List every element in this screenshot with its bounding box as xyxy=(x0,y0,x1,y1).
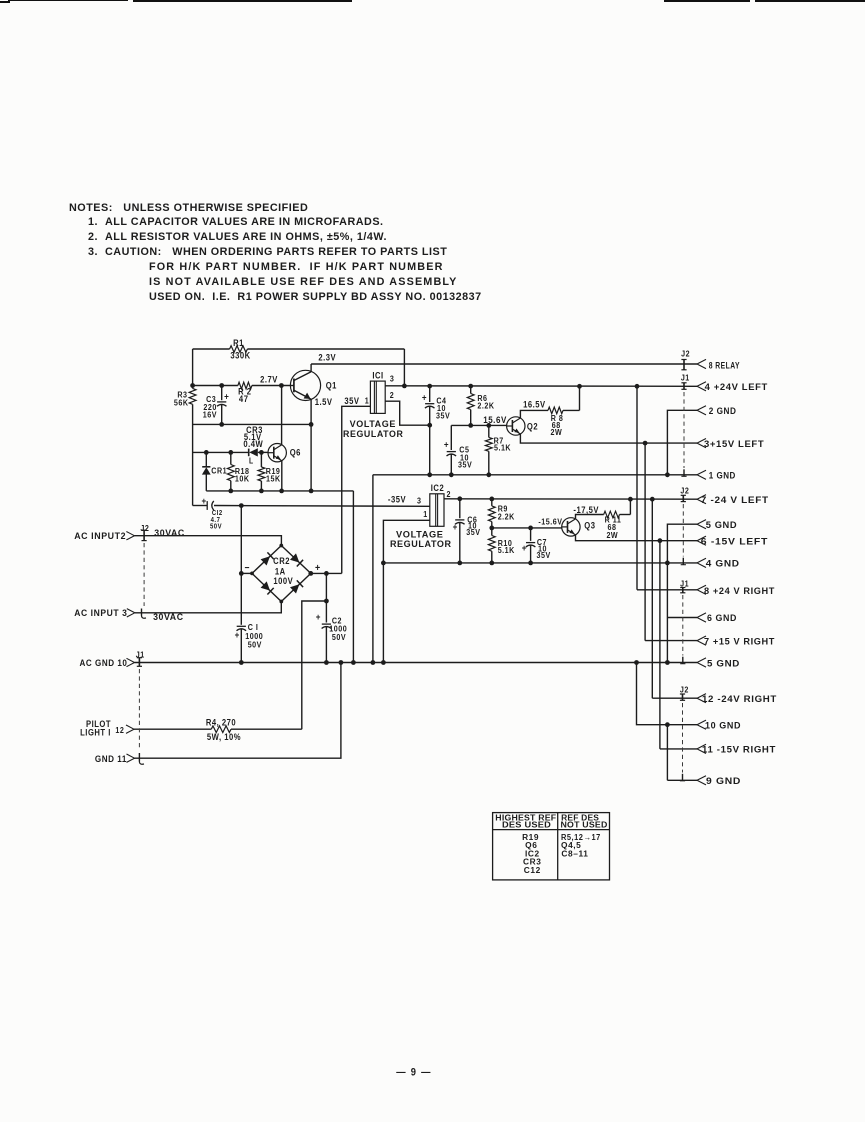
wire xyxy=(135,663,341,759)
svg-text:GND 11: GND 11 xyxy=(95,754,127,765)
resistor R7 xyxy=(485,425,511,477)
pin 8 RELAY xyxy=(697,359,740,370)
svg-text:+: + xyxy=(522,543,527,554)
svg-text:2 GND: 2 GND xyxy=(709,405,737,416)
svg-text:+: + xyxy=(202,495,207,506)
wire xyxy=(667,617,697,619)
resistor R11 xyxy=(604,511,622,540)
svg-text:2.2K: 2.2K xyxy=(498,512,515,522)
svg-text:REGULATOR: REGULATOR xyxy=(390,538,452,549)
svg-text:2.3V: 2.3V xyxy=(318,352,336,363)
svg-text:Q1: Q1 xyxy=(326,380,337,391)
svg-text:1: 1 xyxy=(423,509,428,519)
op-amp IC1 xyxy=(343,370,403,439)
svg-text:8 +24 V RIGHT: 8 +24 V RIGHT xyxy=(704,585,775,596)
wire xyxy=(385,384,697,389)
svg-text:56K: 56K xyxy=(174,398,189,408)
pin 6 -15V LEFT xyxy=(697,536,768,547)
svg-text:330K: 330K xyxy=(230,350,250,361)
connector J2 xyxy=(680,685,689,781)
wire xyxy=(135,602,281,613)
svg-text:11 -15V RIGHT: 11 -15V RIGHT xyxy=(702,744,776,755)
wire xyxy=(281,461,283,491)
svg-text:2.2K: 2.2K xyxy=(477,401,494,411)
pin AC INPUT 3 xyxy=(74,607,183,622)
wire xyxy=(351,491,356,665)
pin 5 GND xyxy=(697,519,737,530)
svg-text:AC INPUT2: AC INPUT2 xyxy=(74,530,126,541)
wire xyxy=(667,410,697,475)
op-amp IC2 xyxy=(390,482,452,549)
capacitor C3 xyxy=(203,386,230,425)
diode CR1 xyxy=(202,452,227,491)
capacitor C2 xyxy=(316,573,348,664)
svg-text:30VAC: 30VAC xyxy=(153,611,184,622)
svg-text:8 RELAY: 8 RELAY xyxy=(709,360,740,371)
wire xyxy=(193,348,405,350)
svg-text:5 GND: 5 GND xyxy=(707,658,740,669)
svg-text:AC GND 10: AC GND 10 xyxy=(80,657,128,668)
wire xyxy=(667,524,697,662)
pin PILOT LIGHT 12 xyxy=(80,718,134,738)
resistor R10 xyxy=(488,528,514,565)
svg-text:3: 3 xyxy=(390,374,395,384)
svg-text:+: + xyxy=(224,391,229,402)
svg-text:LIGHT I: LIGHT I xyxy=(80,727,111,738)
connector J1 xyxy=(680,579,689,664)
capacitor C5 xyxy=(444,425,473,477)
wire xyxy=(667,725,697,781)
svg-text:1: 1 xyxy=(365,396,370,406)
pin 10 GND xyxy=(697,720,741,731)
svg-text:2: 2 xyxy=(447,490,452,500)
pin AC GND 10 xyxy=(80,657,135,668)
wire xyxy=(659,541,661,749)
pin 3 +15V LEFT xyxy=(697,439,764,450)
svg-text:4 +24V LEFT: 4 +24V LEFT xyxy=(705,382,768,393)
svg-text:50V: 50V xyxy=(248,640,262,650)
resistor R3 xyxy=(174,388,196,407)
resistor R1 xyxy=(230,337,251,360)
svg-text:5.1K: 5.1K xyxy=(494,443,511,453)
svg-text:12: 12 xyxy=(115,726,124,736)
wire xyxy=(342,406,371,573)
svg-text:9 GND: 9 GND xyxy=(706,775,741,786)
wire xyxy=(193,422,314,427)
wire xyxy=(135,536,282,546)
scan mark top-left xyxy=(0,1,10,3)
svg-text:C8–11: C8–11 xyxy=(561,848,588,858)
rectifier CR2 xyxy=(244,544,320,604)
node 16.5V xyxy=(523,386,579,410)
connector J2 xyxy=(681,349,690,370)
svg-text:50V: 50V xyxy=(332,633,346,643)
svg-text:CR1: CR1 xyxy=(211,466,227,476)
svg-text:6 -15V LEFT: 6 -15V LEFT xyxy=(701,536,768,547)
pin 6 GND xyxy=(697,613,737,624)
resistor R18 xyxy=(227,452,249,491)
capacitor C7 xyxy=(522,528,551,565)
wire xyxy=(576,535,698,544)
zener CR3 xyxy=(243,424,263,465)
pin 12 -24V RIGHT xyxy=(697,693,777,704)
capacitor C12 xyxy=(193,495,223,530)
wire xyxy=(637,663,698,728)
pin 4 GND xyxy=(697,558,740,569)
transistor Q2 xyxy=(507,417,539,435)
svg-text:— 9 —: — 9 — xyxy=(396,1067,431,1079)
wire xyxy=(644,443,646,640)
svg-text:AC INPUT 3: AC INPUT 3 xyxy=(74,607,127,618)
connector J1 input xyxy=(136,650,145,764)
resistor R6 xyxy=(467,386,494,428)
pin GND 11 xyxy=(95,754,135,765)
wire xyxy=(371,475,376,665)
svg-text:Q2: Q2 xyxy=(527,421,538,432)
transistor Q3 xyxy=(562,518,596,536)
svg-text:35V: 35V xyxy=(344,395,359,406)
resistor R19 xyxy=(258,452,281,491)
svg-text:6 GND: 6 GND xyxy=(707,613,737,624)
wire xyxy=(403,349,405,386)
page number xyxy=(396,1067,431,1079)
svg-text:16.5V: 16.5V xyxy=(523,399,546,410)
svg-text:100V: 100V xyxy=(273,575,293,586)
resistor R8 xyxy=(548,407,563,437)
svg-text:-15.6V: -15.6V xyxy=(538,517,562,527)
svg-text:R1: R1 xyxy=(233,337,244,348)
svg-text:16V: 16V xyxy=(203,410,217,420)
wire xyxy=(660,748,697,750)
capacitor C1 xyxy=(235,506,264,665)
svg-text:+: + xyxy=(235,629,240,640)
svg-text:7 +15 V RIGHT: 7 +15 V RIGHT xyxy=(704,636,775,647)
connector J2 xyxy=(680,486,689,565)
svg-text:CR2: CR2 xyxy=(273,555,290,566)
node 2.7V xyxy=(190,374,290,388)
svg-text:30VAC: 30VAC xyxy=(154,527,185,538)
wire xyxy=(520,410,548,418)
svg-text:2: 2 xyxy=(390,390,395,400)
wire xyxy=(193,450,268,455)
pin 4 +24V LEFT xyxy=(697,382,768,393)
wire xyxy=(373,472,697,477)
svg-text:50V: 50V xyxy=(210,523,222,531)
svg-text:+: + xyxy=(453,522,458,533)
wire xyxy=(652,697,697,699)
svg-text:J2: J2 xyxy=(140,524,149,534)
pin 1 GND xyxy=(697,470,736,481)
wire xyxy=(636,386,638,590)
wire xyxy=(192,349,194,506)
wire xyxy=(206,489,353,494)
svg-text:NOT USED: NOT USED xyxy=(560,819,607,829)
connector J1 xyxy=(681,373,690,476)
svg-text:J2: J2 xyxy=(680,685,689,695)
wire xyxy=(385,401,430,425)
svg-text:5 GND: 5 GND xyxy=(706,519,738,530)
svg-text:10K: 10K xyxy=(235,474,250,484)
svg-text:5W, 10%: 5W, 10% xyxy=(207,732,241,743)
svg-text:4 GND: 4 GND xyxy=(706,558,740,569)
wire xyxy=(520,434,697,446)
svg-text:+: + xyxy=(315,562,321,574)
wire xyxy=(383,561,697,566)
svg-text:12 -24V RIGHT: 12 -24V RIGHT xyxy=(702,693,777,704)
svg-text:-35V: -35V xyxy=(388,494,406,505)
node 2.3V xyxy=(311,352,697,364)
node 15.6V xyxy=(451,415,507,428)
pin AC INPUT 2 xyxy=(74,527,185,541)
pin 11 -15V RIGHT xyxy=(697,744,776,755)
svg-text:−: − xyxy=(244,562,249,573)
net -35V xyxy=(214,494,430,508)
svg-text:7 -24 V LEFT: 7 -24 V LEFT xyxy=(701,495,769,506)
svg-text:Q3: Q3 xyxy=(584,520,595,531)
svg-text:0.4W: 0.4W xyxy=(243,438,263,449)
svg-text:+: + xyxy=(444,439,449,450)
wire xyxy=(310,364,312,372)
resistor R4 xyxy=(134,717,302,742)
pin 9 GND xyxy=(697,775,741,786)
svg-text:2.7V: 2.7V xyxy=(260,374,278,385)
wire xyxy=(302,599,329,730)
wire xyxy=(310,399,312,491)
wire xyxy=(381,520,430,665)
table xyxy=(493,812,610,880)
svg-text:C12: C12 xyxy=(524,865,541,875)
svg-text:L: L xyxy=(249,456,254,466)
pin 7 +15V RIGHT xyxy=(697,636,775,647)
svg-text:10 GND: 10 GND xyxy=(705,720,741,731)
transistor Q1 xyxy=(290,370,337,407)
svg-text:35V: 35V xyxy=(458,460,472,470)
pin 8 +24V RIGHT xyxy=(697,585,775,596)
svg-text:3+15V LEFT: 3+15V LEFT xyxy=(704,439,764,450)
svg-text:3: 3 xyxy=(417,496,422,506)
wire xyxy=(576,515,604,520)
pin 7 -24V LEFT xyxy=(697,495,769,506)
svg-text:+: + xyxy=(316,612,321,623)
svg-text:35V: 35V xyxy=(537,550,551,560)
wire xyxy=(645,640,697,642)
pin 2 GND xyxy=(697,405,736,416)
svg-text:-17,5V: -17,5V xyxy=(573,505,599,516)
svg-text:47: 47 xyxy=(239,393,249,404)
capacitor C6 xyxy=(453,499,481,566)
svg-text:5.1K: 5.1K xyxy=(498,545,515,555)
wire xyxy=(239,571,252,576)
connector J2 input xyxy=(140,524,149,619)
svg-text:1.5V: 1.5V xyxy=(315,397,333,408)
svg-text:15.6V: 15.6V xyxy=(483,415,507,426)
svg-text:35V: 35V xyxy=(466,528,480,538)
wire xyxy=(444,496,697,501)
pin 5 GND xyxy=(697,658,740,669)
svg-text:35V: 35V xyxy=(436,411,450,421)
scan mark top-right xyxy=(664,0,750,2)
svg-text:R4, 270: R4, 270 xyxy=(206,717,236,728)
svg-text:ICI: ICI xyxy=(372,370,383,381)
svg-text:DES USED: DES USED xyxy=(502,819,551,829)
node -17.5V xyxy=(573,499,630,515)
wire xyxy=(281,386,283,445)
resistor R9 xyxy=(488,499,514,528)
node -15.6V xyxy=(489,517,562,531)
wire xyxy=(637,589,697,591)
svg-text:REGULATOR: REGULATOR xyxy=(343,428,403,439)
transistor Q6 xyxy=(268,444,301,462)
net AC GND xyxy=(135,660,698,665)
svg-text:15K: 15K xyxy=(266,474,281,484)
svg-text:J2: J2 xyxy=(680,486,689,496)
resistor R2 xyxy=(238,382,252,404)
svg-text:IC2: IC2 xyxy=(431,482,444,493)
svg-text:1 GND: 1 GND xyxy=(709,470,736,481)
svg-text:+: + xyxy=(422,392,427,403)
svg-text:J2: J2 xyxy=(681,349,690,359)
svg-text:Q6: Q6 xyxy=(290,447,301,458)
svg-text:2W: 2W xyxy=(606,531,618,541)
svg-text:J1: J1 xyxy=(681,373,690,383)
capacitor C4 xyxy=(422,386,451,477)
wire xyxy=(308,571,341,576)
svg-text:2W: 2W xyxy=(551,427,563,437)
wire xyxy=(651,499,653,698)
